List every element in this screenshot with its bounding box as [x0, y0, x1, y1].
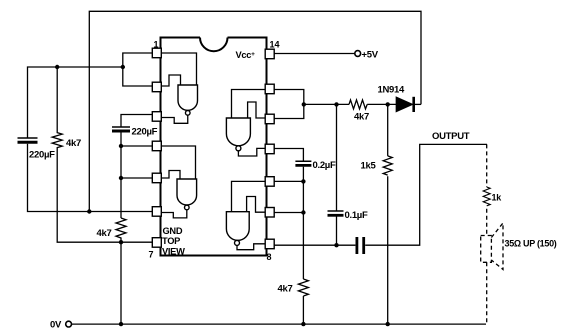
wire pin13 to node B [274, 90, 304, 105]
node junction C4 branch [334, 102, 338, 106]
IC U1 notch semicircle [200, 38, 228, 52]
gate U1a NAND body [178, 85, 198, 115]
svg-text:1k5: 1k5 [361, 161, 377, 172]
capacitor C1 220uF plates [18, 138, 38, 142]
gate U1b output wire to pin6 [161, 210, 187, 218]
speaker LS1 cone [491, 223, 503, 270]
wire R2 bottom to 0V rail [120, 242, 122, 324]
IC U1 pin squares left (pins 1-7) [152, 48, 161, 247]
gate U1d input wire from pin10 [232, 181, 267, 211]
svg-text:4k7: 4k7 [278, 284, 293, 295]
svg-text:1N914: 1N914 [378, 85, 406, 96]
node junction R2 bottom [119, 240, 123, 244]
wire feedback rail (diode cathode to pin6 node): left vertical, top rail, right vertical [89, 11, 421, 211]
wire C2 bottom chain down to R2 [120, 131, 122, 218]
gate U1a output wire to pin3 [161, 114, 188, 123]
capacitor C3 0.2uF plates [295, 161, 311, 165]
gate U1d output wire to pin8 [237, 244, 266, 250]
wire node P horizontal (cap C1 top / R1 top / pins 1-2) [28, 67, 123, 138]
svg-text:1k: 1k [492, 193, 503, 203]
node junction pin5 [119, 176, 123, 180]
svg-text:4k7: 4k7 [354, 112, 369, 123]
svg-text:0.2µF: 0.2µF [313, 160, 336, 171]
resistor R5 1k5 zigzag [383, 156, 392, 175]
wire pin14 to +5V terminal [274, 53, 355, 55]
node junction feedback to pin6 wire [87, 209, 91, 213]
node junction B [302, 102, 306, 106]
gate U1b input wire from pin4 [161, 146, 196, 179]
wire 0V rail [72, 323, 486, 325]
svg-text:8: 8 [267, 252, 272, 262]
gate U1a input wire from pin2 staircase [161, 75, 181, 86]
svg-text:GND: GND [163, 226, 183, 236]
wire pin4 branch [121, 145, 153, 147]
svg-text:1: 1 [154, 40, 159, 50]
capacitor C2 220uF plates [112, 127, 130, 131]
node junction pin10 [301, 179, 305, 183]
wire dashed speaker to 0V rail [486, 262, 488, 324]
svg-text:OUTPUT: OUTPUT [432, 131, 470, 142]
resistor R1 4k7 zigzag [52, 67, 121, 242]
wire pin11 to C3 top [274, 149, 303, 162]
capacitor C5 coupling plates [357, 237, 364, 254]
speaker LS1 rectangle [481, 236, 492, 263]
gate U1c input wire from pin13 [232, 90, 267, 119]
wire R3 bottom to 0V rail [302, 296, 304, 324]
resistor R3 4k7 zigzag [298, 279, 308, 296]
resistor R6 1k zigzag [483, 187, 490, 206]
wire C4 chain vertical [336, 104, 338, 211]
gate U1d NAND body [226, 212, 249, 246]
wire pin10 branch [274, 180, 303, 182]
diode D1 1N914 triangle [396, 97, 412, 111]
wire pin2 branch [123, 67, 153, 86]
node junction R5 top [386, 102, 390, 106]
svg-text:Vcc+: Vcc+ [236, 50, 256, 60]
node junction R1 top [55, 65, 59, 69]
svg-text:0V: 0V [50, 319, 62, 330]
wire C4 bottom to output line [336, 217, 338, 246]
wire node B to R4 [304, 103, 349, 105]
wire pin7 branch [121, 241, 153, 243]
svg-text:14: 14 [270, 40, 280, 50]
gate U1b input wire from pin5 staircase [161, 171, 180, 180]
node junction P split [121, 65, 125, 69]
svg-text:4k7: 4k7 [97, 228, 112, 239]
svg-text:+5V: +5V [362, 50, 379, 61]
wire C5 to output corner and box top [365, 144, 487, 245]
capacitor C4 0.1uF plates [328, 211, 344, 215]
svg-text:7: 7 [149, 250, 154, 260]
svg-text:220µF: 220µF [132, 127, 158, 138]
wire diode to feedback rail [415, 103, 421, 105]
svg-text:35Ω UP (150): 35Ω UP (150) [505, 239, 557, 249]
wire pin12 to node B [274, 104, 304, 118]
wire dashed output right edge down to 1k [486, 144, 488, 187]
node junction pin4 [119, 144, 123, 148]
IC U1 pin squares right (pins 14-8) [265, 49, 274, 249]
wire C1 bottom to pin 6 [28, 144, 153, 212]
gate U1c output wire to pin11 [238, 148, 266, 156]
node junction rail R3 [301, 322, 305, 326]
node junction rail R5 [386, 322, 390, 326]
resistor R2 4k7 zigzag [116, 218, 126, 242]
wire C2 top to pin 3 [121, 115, 153, 128]
svg-text:220µF: 220µF [29, 150, 55, 161]
gate U1c input wire from pin12 staircase [248, 102, 266, 118]
IC U1 outline with notch [161, 38, 267, 256]
gate U1b NAND body [177, 179, 197, 210]
svg-text:4k7: 4k7 [66, 138, 81, 149]
node junction C4 bottom [334, 243, 338, 247]
diode D1 cathode bar [412, 97, 415, 112]
node junction rail R2 [119, 322, 123, 326]
gate U1c NAND body [226, 118, 250, 151]
wire R4 to diode [367, 103, 396, 105]
svg-text:0.1µF: 0.1µF [345, 210, 368, 221]
terminal +5V circle [355, 51, 361, 57]
wire pin9 branch [274, 212, 303, 214]
gate U1d input wire from pin9 staircase [247, 197, 266, 213]
wire pin1 branch [123, 53, 153, 67]
resistor R4 4k7 zigzag [349, 100, 367, 109]
wire dashed 1k to speaker [486, 209, 488, 236]
svg-text:VIEW: VIEW [162, 247, 185, 257]
wire C3 bottom chain to R3 [302, 167, 304, 279]
wire pin8 output line to coupling cap [274, 244, 355, 246]
wire R5 bottom to 0V rail [387, 176, 389, 324]
gate U1a input wire from pin1 [161, 53, 197, 85]
wire pin5 branch [121, 177, 153, 179]
terminal 0V circle [66, 321, 72, 327]
wire R5 chain [387, 104, 389, 155]
svg-text:TOP: TOP [162, 236, 180, 246]
node junction pin9 [301, 210, 305, 214]
